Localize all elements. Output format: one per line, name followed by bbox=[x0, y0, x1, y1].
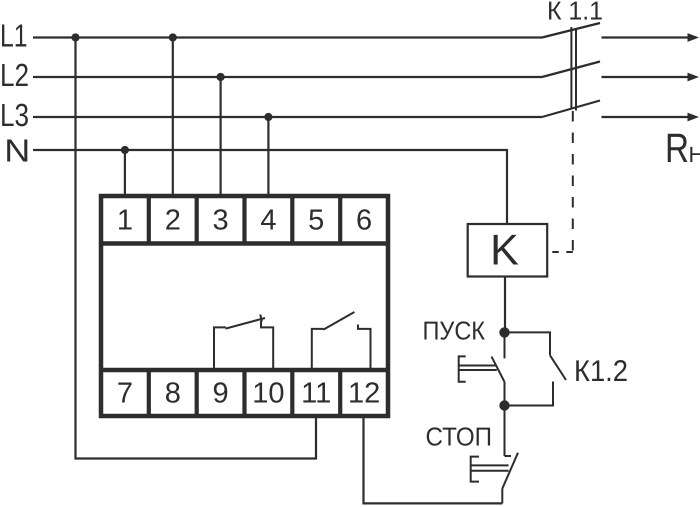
wire coil K to start node bbox=[504, 277, 506, 334]
junction dot start node bbox=[499, 327, 509, 337]
node L2 label bbox=[0, 57, 29, 93]
junction dot stop node bbox=[499, 400, 509, 410]
svg-text:L1: L1 bbox=[0, 18, 28, 54]
node ПУСК label bbox=[423, 316, 486, 346]
wire L2 to terminal 3 bbox=[220, 77, 222, 196]
svg-text:7: 7 bbox=[117, 378, 133, 410]
svg-text:K: K bbox=[490, 227, 519, 275]
contact K1.2 label bbox=[574, 355, 628, 388]
terminal 12 label bbox=[348, 378, 380, 410]
coil K label bbox=[490, 227, 519, 275]
terminal 11 label bbox=[301, 378, 331, 410]
contact K1.2 (latching branch) bbox=[505, 332, 567, 405]
junction dot L3-terminal4 bbox=[264, 113, 272, 121]
node L1 label bbox=[0, 18, 28, 54]
wire load L2 with arrow bbox=[602, 73, 700, 82]
contact K1.1 label bbox=[547, 0, 603, 26]
svg-text:К1.2: К1.2 bbox=[574, 355, 628, 388]
svg-text:5: 5 bbox=[308, 205, 324, 237]
linkage dashed K1.1 to coil (horizontal) bbox=[549, 251, 573, 253]
relay contact terminals 11-12 bbox=[312, 312, 371, 371]
svg-text:6: 6 bbox=[356, 205, 372, 237]
wire terminal 12 to stop button bbox=[364, 416, 503, 503]
svg-text:R: R bbox=[665, 125, 689, 171]
svg-text:11: 11 bbox=[301, 378, 331, 410]
svg-text:4: 4 bbox=[260, 205, 276, 237]
wire L3 to terminal 4 bbox=[267, 117, 269, 196]
wire load L3 with arrow bbox=[602, 113, 700, 122]
node Rн load label bbox=[665, 125, 700, 171]
wire L1 to terminal 2 bbox=[172, 38, 174, 197]
svg-text:9: 9 bbox=[213, 378, 229, 410]
contact K1.1 blade L2 bbox=[542, 62, 600, 78]
wire L1 to terminal 11 (left drop and bottom run) bbox=[76, 38, 317, 459]
coil K box bbox=[468, 224, 548, 277]
terminal 4 label bbox=[260, 205, 276, 237]
wire L2 feeder bbox=[33, 76, 542, 78]
junction dot L1-left bbox=[71, 33, 79, 41]
svg-text:К 1.1: К 1.1 bbox=[547, 0, 603, 26]
svg-text:3: 3 bbox=[213, 205, 229, 237]
svg-text:1: 1 bbox=[117, 205, 133, 237]
terminal 3 label bbox=[213, 205, 229, 237]
pushbutton СТОП (NC stop button) bbox=[471, 406, 518, 504]
node СТОП label bbox=[426, 422, 493, 452]
svg-text:Н: Н bbox=[689, 142, 700, 167]
contact K1.1 linkage bar bbox=[571, 27, 576, 111]
terminal 6 label bbox=[356, 205, 372, 237]
wire L3 feeder bbox=[33, 116, 542, 118]
node N label bbox=[4, 133, 30, 169]
junction dot L1-terminal2 bbox=[169, 33, 177, 41]
wire N to terminal 1 bbox=[124, 150, 126, 196]
svg-text:N: N bbox=[4, 133, 30, 169]
junction dot L2-terminal3 bbox=[217, 73, 225, 81]
relay contact terminals 9-10 bbox=[214, 315, 273, 372]
node L3 label bbox=[0, 97, 29, 133]
contact K1.1 blade L3 bbox=[542, 101, 600, 118]
svg-text:L2: L2 bbox=[0, 57, 29, 93]
svg-text:8: 8 bbox=[165, 378, 181, 410]
terminal 5 label bbox=[308, 205, 324, 237]
terminal strip top row bbox=[101, 196, 388, 244]
terminal 7 label bbox=[117, 378, 133, 410]
terminal 9 label bbox=[213, 378, 229, 410]
pushbutton ПУСК (NO start button) bbox=[459, 332, 505, 405]
svg-text:10: 10 bbox=[252, 378, 284, 410]
wire L1 feeder bbox=[33, 36, 542, 38]
linkage dashed K1.1 to coil (vertical) bbox=[572, 111, 574, 252]
svg-text:СТОП: СТОП bbox=[426, 422, 493, 452]
terminal strip bottom row bbox=[101, 370, 388, 416]
wire load L1 with arrow bbox=[602, 33, 700, 42]
relay device outline bbox=[101, 196, 388, 416]
terminal 1 label bbox=[117, 205, 133, 237]
svg-text:12: 12 bbox=[348, 378, 380, 410]
svg-text:ПУСК: ПУСК bbox=[423, 316, 486, 346]
svg-text:2: 2 bbox=[165, 205, 181, 237]
wire N feeder bbox=[33, 150, 507, 225]
svg-text:L3: L3 bbox=[0, 97, 29, 133]
junction dot N-terminal1 bbox=[121, 146, 129, 154]
terminal 8 label bbox=[165, 378, 181, 410]
terminal 2 label bbox=[165, 205, 181, 237]
terminal 10 label bbox=[252, 378, 284, 410]
contact K1.1 blade L1 bbox=[542, 23, 600, 38]
